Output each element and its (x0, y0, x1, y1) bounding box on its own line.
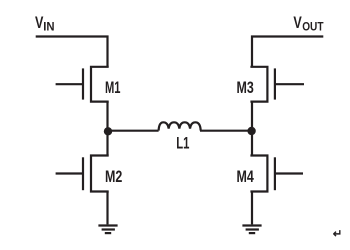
node A junction dot (104, 127, 112, 135)
svg-text:L1: L1 (176, 134, 189, 152)
wire node A to inductor (108, 130, 159, 132)
ground (left) (98, 226, 117, 234)
svg-text:OUT: OUT (302, 21, 323, 34)
svg-text:V: V (293, 13, 302, 32)
wire node B to M4 drain (251, 131, 253, 156)
transistor M4 (237, 156, 304, 192)
node B junction dot (247, 127, 255, 135)
wire M3 source to node B (251, 102, 253, 131)
svg-text:IN: IN (43, 20, 54, 33)
svg-text:M4: M4 (237, 168, 255, 186)
net label VIN (35, 13, 55, 34)
svg-text:M3: M3 (237, 79, 254, 97)
wire inductor to node B (200, 130, 252, 132)
wire M1 source to node A (106, 102, 108, 131)
svg-text:↵: ↵ (333, 228, 342, 240)
transistor M3 (237, 67, 305, 102)
transistor M1 (56, 67, 121, 102)
inductor L1 (159, 122, 201, 152)
svg-text:M2: M2 (105, 168, 122, 186)
svg-text:M1: M1 (105, 79, 121, 97)
ground (right) (242, 226, 261, 234)
net label VOUT (293, 13, 323, 34)
wire VOUT rail to M3 drain (252, 37, 323, 67)
wire M2 source to ground (106, 192, 108, 225)
wire node A to M2 drain (106, 131, 108, 156)
wire M4 source to ground (251, 192, 253, 225)
transistor M2 (56, 156, 123, 192)
wire VIN rail to M1 drain (36, 37, 108, 67)
